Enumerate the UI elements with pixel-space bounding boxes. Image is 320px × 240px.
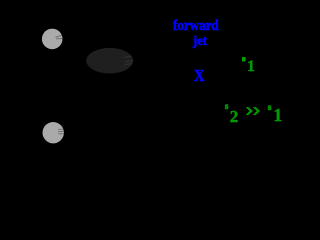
label: 2 of lower s2 bbox=[230, 108, 239, 125]
hadron blob top (gray circle) bbox=[42, 29, 63, 50]
label: forward bbox=[173, 19, 219, 34]
label: s of lower s1 bbox=[268, 104, 272, 114]
label: X bbox=[194, 67, 205, 84]
label: jet bbox=[193, 35, 207, 49]
s (tiny green s of upper s1, rendered as blob) bbox=[242, 57, 246, 62]
label: 1 of lower s1 bbox=[274, 107, 283, 125]
hadron blob bottom (gray circle) bbox=[43, 122, 64, 143]
label: 1 of upper s1 bbox=[247, 59, 255, 75]
interaction blob (dark ellipse) bbox=[86, 48, 133, 74]
label: s of lower s2 bbox=[225, 102, 229, 111]
label: >> (much greater than) bbox=[0, 0, 283, 176]
